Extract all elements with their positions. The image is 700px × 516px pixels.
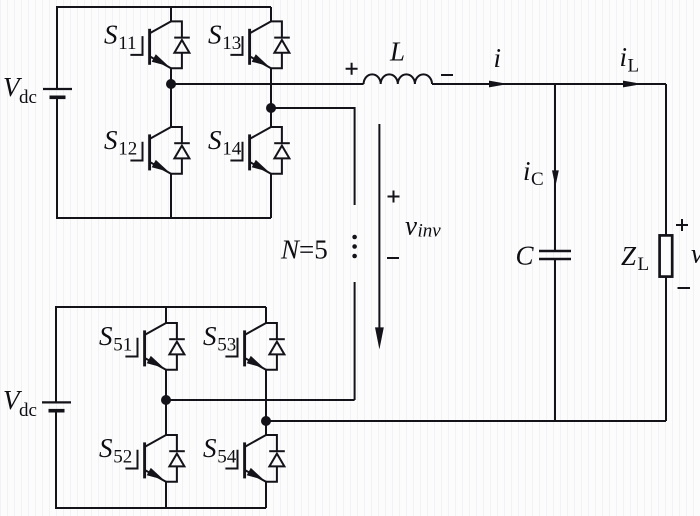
svg-text:L: L	[628, 56, 640, 77]
svg-text:i: i	[620, 42, 628, 72]
svg-text:54: 54	[217, 446, 237, 467]
svg-text:53: 53	[217, 334, 236, 355]
svg-text:S: S	[104, 20, 118, 50]
svg-text:v: v	[691, 239, 700, 269]
svg-text:Z: Z	[621, 241, 637, 271]
svg-text:S: S	[208, 125, 222, 155]
svg-text:13: 13	[222, 33, 241, 54]
svg-text:i: i	[523, 156, 531, 186]
svg-text:S: S	[99, 321, 113, 351]
svg-text:S: S	[104, 125, 118, 155]
svg-text:L: L	[389, 37, 405, 67]
svg-text:14: 14	[222, 138, 242, 159]
svg-text:12: 12	[118, 138, 137, 159]
svg-text:S: S	[208, 20, 222, 50]
svg-text:C: C	[516, 241, 535, 271]
svg-text:v: v	[405, 211, 417, 241]
svg-text:11: 11	[118, 33, 136, 54]
svg-text:dc: dc	[19, 87, 37, 108]
svg-text:S: S	[203, 433, 217, 463]
svg-text:dc: dc	[19, 400, 37, 421]
svg-text:C: C	[531, 169, 544, 190]
svg-text:i: i	[494, 43, 502, 73]
svg-text:L: L	[638, 254, 650, 275]
svg-text:S: S	[99, 433, 113, 463]
svg-text:inv: inv	[418, 221, 442, 242]
svg-text:S: S	[203, 321, 217, 351]
svg-text:52: 52	[113, 446, 132, 467]
svg-text:51: 51	[113, 334, 132, 355]
svg-text:N=5: N=5	[280, 235, 328, 265]
